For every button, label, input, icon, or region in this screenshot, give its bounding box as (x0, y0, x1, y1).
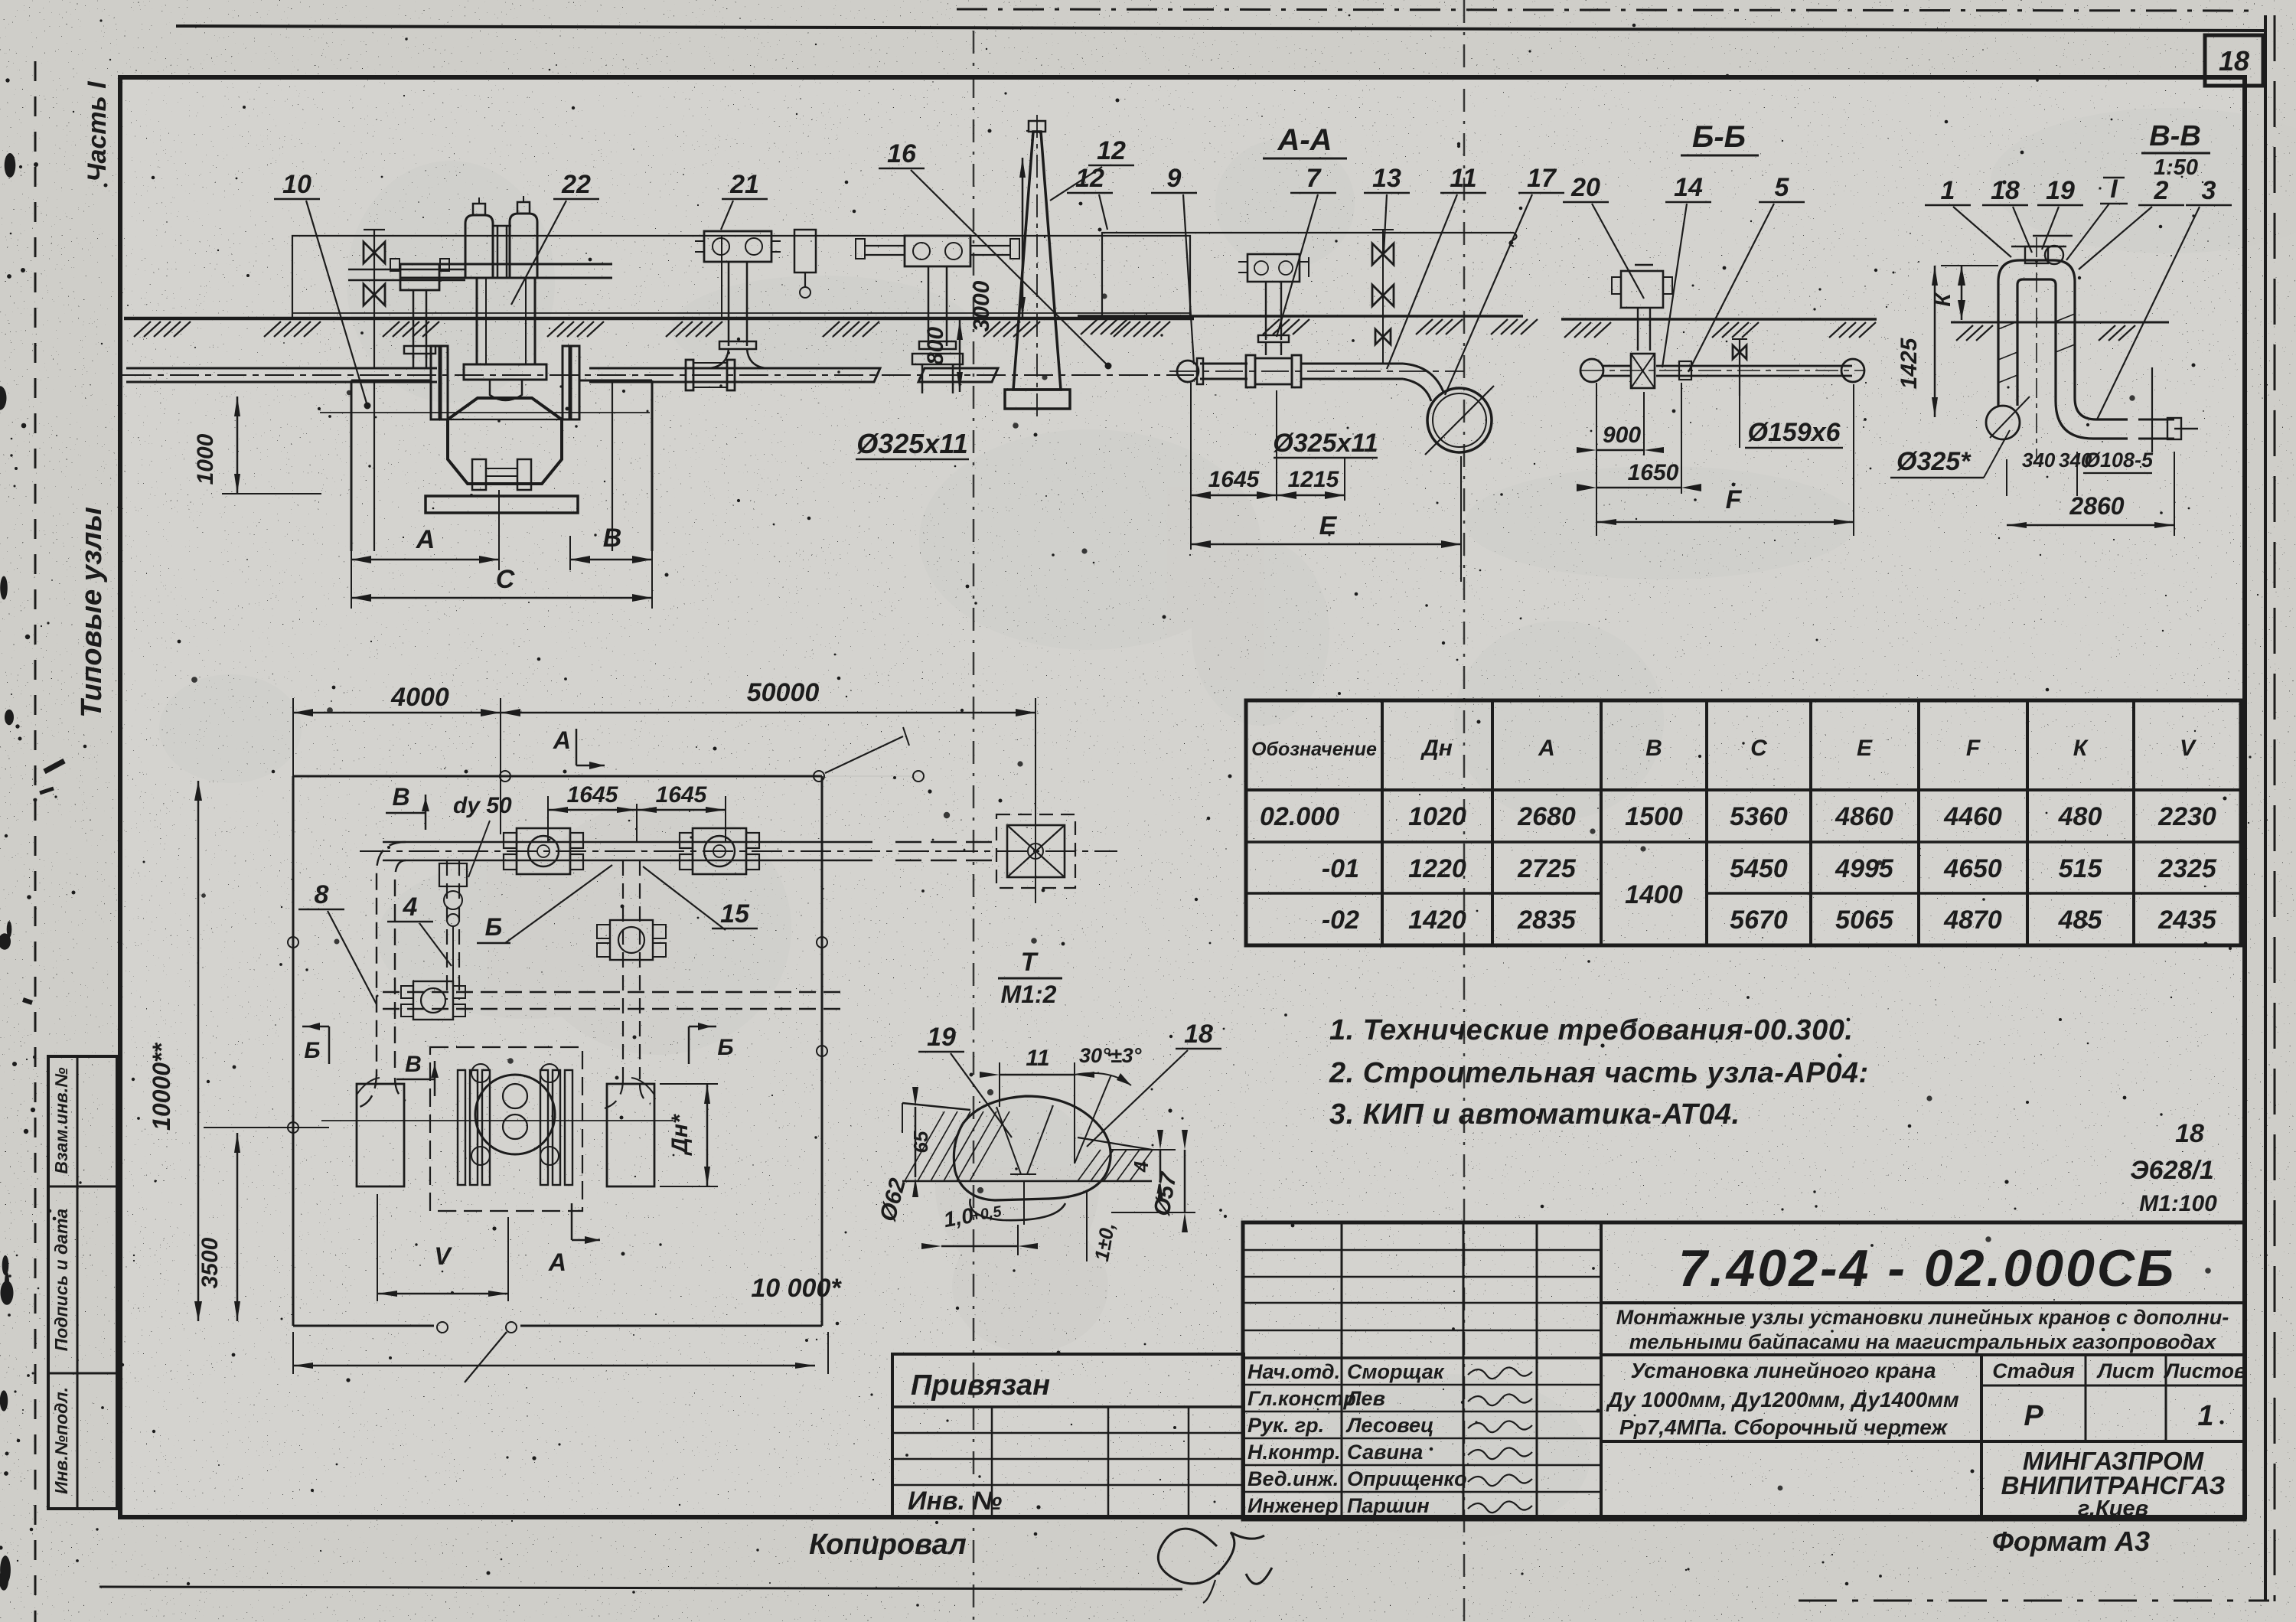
svg-text:2230: 2230 (2157, 802, 2216, 831)
dim A main (351, 551, 352, 609)
plan pipeline (360, 850, 1117, 852)
dim 3000 vertical (1022, 158, 1024, 317)
left instrument column 22 (400, 264, 439, 290)
svg-text:1645: 1645 (656, 782, 708, 808)
svg-text:5: 5 (1775, 173, 1790, 202)
svg-text:22: 22 (561, 170, 591, 199)
plan bypass valve 4 (413, 981, 453, 1020)
svg-text:-01: -01 (1322, 854, 1359, 883)
right outer border lines (2264, 15, 2267, 1601)
plan dim Dn (660, 1083, 718, 1085)
main view enclosure box (292, 236, 1190, 318)
svg-text:3. КИП и автоматика-АТ04.: 3. КИП и автоматика-АТ04. (1329, 1098, 1740, 1131)
plan valve fitting 1 (517, 828, 570, 874)
riser valve 21b (905, 236, 970, 266)
svg-text:4860: 4860 (1835, 802, 1893, 831)
svg-text:Установка линейного крана: Установка линейного крана (1630, 1359, 1936, 1382)
svg-text:12: 12 (1097, 136, 1126, 165)
plan fence gate top (819, 775, 918, 777)
svg-text:1220: 1220 (1408, 854, 1466, 883)
data table grid (1246, 700, 2241, 945)
B-B ground hatching (1564, 322, 1581, 338)
svg-text:1215: 1215 (1288, 467, 1340, 492)
svg-text:Е: Е (1319, 511, 1338, 540)
plan main valve flange plates (458, 1070, 465, 1185)
svg-text:Часть I: Часть I (83, 80, 112, 182)
vent valve stack left (373, 230, 375, 368)
plan vent valve dy50 (439, 863, 467, 886)
A-A dim E (1460, 456, 1462, 582)
svg-text:1: 1 (2197, 1400, 2213, 1432)
dim 1000 vertical (236, 397, 239, 494)
svg-text:1425: 1425 (1896, 337, 1922, 389)
svg-text:02.000: 02.000 (1260, 802, 1339, 831)
weld dim 11 (1000, 1074, 1075, 1076)
plan main valve dashed box (430, 1047, 582, 1211)
svg-text:5360: 5360 (1730, 802, 1788, 831)
svg-text:19: 19 (2046, 176, 2075, 205)
weld left hatch zone (905, 1111, 944, 1181)
svg-text:340: 340 (2022, 449, 2056, 472)
A-A dim 1645 (1190, 383, 1192, 550)
svg-text:11: 11 (1026, 1046, 1049, 1071)
buried pipeline left segment (126, 367, 437, 370)
plan dim 10000 left (197, 781, 200, 1321)
svg-text:5450: 5450 (1730, 854, 1788, 883)
svg-text:17: 17 (1527, 164, 1557, 193)
V-V top fitting (2025, 246, 2048, 263)
pipe segment 2 (918, 368, 998, 382)
svg-text:4870: 4870 (1943, 906, 2002, 935)
dim 800 vertical (959, 320, 961, 392)
svg-text:8: 8 (315, 880, 329, 909)
svg-text:7.402-4 - 02.000СБ: 7.402-4 - 02.000СБ (1678, 1239, 2176, 1297)
svg-text:2325: 2325 (2157, 854, 2217, 883)
svg-text:18: 18 (2219, 45, 2249, 77)
plan bypass left loop (360, 842, 406, 1107)
svg-text:Б: Б (304, 1038, 320, 1063)
B-B small fitting 14 (1679, 361, 1691, 380)
plan main valve circles (475, 1075, 555, 1154)
svg-text:В-В: В-В (2149, 120, 2201, 152)
svg-text:Ду 1000мм, Ду1200мм, Ду1400мм: Ду 1000мм, Ду1200мм, Ду1400мм (1606, 1388, 1959, 1411)
svg-text:Типовые узлы: Типовые узлы (76, 507, 108, 718)
svg-text:Б: Б (717, 1035, 733, 1060)
svg-text:Ø108-5: Ø108-5 (2084, 449, 2154, 472)
plan pipeline end fitting (1007, 825, 1065, 877)
actuator platform (400, 263, 612, 266)
plan fence right (821, 776, 823, 1326)
svg-text:2725: 2725 (1517, 854, 1577, 883)
svg-text:Рук. гр.: Рук. гр. (1247, 1414, 1324, 1437)
doc subject box (1601, 1440, 2245, 1443)
plan fence posts top (500, 771, 510, 782)
A-A enclosure box (1102, 233, 1514, 316)
svg-text:V: V (2180, 736, 2197, 761)
weld root lobe (970, 1199, 1065, 1220)
svg-text:14: 14 (1674, 173, 1703, 202)
svg-text:9: 9 (1167, 164, 1182, 193)
pipe coupling flanges (686, 360, 693, 390)
title block signatures (1468, 1367, 1532, 1513)
svg-text:800: 800 (923, 327, 948, 365)
svg-text:ВНИПИТРАНСГАЗ: ВНИПИТРАНСГАЗ (2001, 1471, 2226, 1500)
svg-text:Привязан: Привязан (911, 1369, 1050, 1402)
svg-text:Монтажные узлы установки линей: Монтажные узлы установки линейных кранов… (1616, 1306, 2229, 1329)
svg-text:Лист: Лист (2096, 1359, 2154, 1382)
fold line 1 (973, 31, 975, 1622)
V-V right leg hatch (2056, 314, 2075, 321)
svg-text:3: 3 (2202, 176, 2216, 205)
svg-text:4650: 4650 (1943, 854, 2002, 883)
valve base plate (426, 496, 578, 513)
svg-text:2435: 2435 (2157, 906, 2217, 935)
svg-text:4460: 4460 (1943, 802, 2002, 831)
svg-text:4: 4 (403, 893, 418, 922)
A-A pipe end cap (1177, 361, 1199, 382)
svg-text:Лев: Лев (1345, 1387, 1385, 1410)
svg-text:I: I (2110, 175, 2118, 204)
svg-text:4995: 4995 (1835, 854, 1894, 883)
V-V centerline (2036, 237, 2037, 459)
V-V bottom pipe segment (2138, 419, 2174, 421)
svg-text:18: 18 (1184, 1020, 1213, 1049)
svg-text:2680: 2680 (1517, 802, 1576, 831)
svg-text:Б: Б (485, 913, 503, 941)
svg-text:1000: 1000 (193, 433, 218, 485)
V-V bottom circle (1986, 406, 2020, 439)
svg-text:1020: 1020 (1408, 802, 1466, 831)
svg-text:М1:100: М1:100 (2139, 1191, 2217, 1216)
A-A bypass circle (1427, 388, 1492, 452)
foundation block right (651, 380, 654, 551)
valve body side flanges left (431, 346, 439, 419)
svg-text:Формат А3: Формат А3 (1992, 1526, 2150, 1557)
svg-text:Т: Т (1021, 948, 1039, 977)
svg-text:1650: 1650 (1628, 460, 1679, 485)
valve axis line (320, 412, 650, 413)
V-V dim 2860 (2174, 452, 2175, 536)
B-B dim F (1853, 384, 1854, 536)
svg-text:Сморщак: Сморщак (1347, 1360, 1445, 1383)
svg-text:18: 18 (1991, 176, 2020, 205)
svg-text:Дн*: Дн* (667, 1114, 693, 1157)
dim C main (351, 597, 652, 599)
doc number box (1601, 1301, 2245, 1304)
B-B pipe end circles (1580, 359, 1603, 382)
svg-text:11: 11 (1450, 164, 1476, 193)
plan fence bottom (293, 1325, 434, 1327)
svg-text:Оприщенко: Оприщенко (1347, 1467, 1467, 1490)
svg-text:480: 480 (2058, 802, 2102, 831)
B-B ground line (1561, 318, 1877, 321)
svg-text:1645: 1645 (1208, 467, 1261, 492)
svg-text:К: К (1931, 292, 1955, 307)
weld dim diameter 57 (1184, 1150, 1186, 1212)
weld right hatch zone (1078, 1150, 1101, 1181)
B-B dim 1650 (1681, 383, 1682, 494)
doc description box (1601, 1353, 2245, 1356)
svg-text:1400: 1400 (1625, 880, 1683, 909)
vent stack cone 12 (1013, 132, 1061, 390)
svg-text:тельными байпасами на магистра: тельными байпасами на магистральных газо… (1629, 1330, 2216, 1353)
svg-text:А: А (1538, 736, 1555, 761)
bonnet flange (464, 364, 546, 380)
svg-text:3500: 3500 (197, 1237, 223, 1288)
valve bottom bolts (472, 459, 486, 490)
svg-text:10: 10 (282, 170, 311, 199)
svg-text:Дн: Дн (1420, 736, 1453, 761)
B-B valve on pipe (1631, 354, 1655, 388)
svg-text:10000**: 10000** (148, 1043, 175, 1131)
plan dim 1645 right (725, 796, 726, 842)
svg-text:21: 21 (729, 170, 759, 199)
svg-text:М1:2: М1:2 (1001, 981, 1057, 1008)
A-A dim 1215 (1344, 490, 1345, 501)
svg-text:С: С (496, 565, 515, 594)
stage sheet columns (1980, 1355, 1983, 1519)
svg-text:2860: 2860 (2069, 492, 2124, 520)
weld dim 65 (902, 1103, 903, 1133)
svg-text:dy 50: dy 50 (453, 793, 512, 818)
title block outline (1243, 1222, 2245, 1519)
svg-text:20: 20 (1570, 173, 1600, 202)
svg-text:12: 12 (1075, 164, 1104, 193)
svg-text:Вед.инж.: Вед.инж. (1247, 1467, 1339, 1490)
valve body side flanges right (563, 346, 569, 419)
svg-text:Копировал: Копировал (809, 1529, 967, 1561)
svg-text:Е: Е (1857, 736, 1873, 761)
privyazan box (892, 1354, 1244, 1518)
svg-text:4: 4 (1130, 1160, 1153, 1173)
svg-text:2. Строительная часть узла-А: 2. Строительная часть узла-АР04: (1329, 1057, 1869, 1089)
svg-text:16: 16 (887, 139, 917, 168)
V-V U pipe (1998, 260, 2128, 419)
svg-text:3000: 3000 (969, 280, 994, 331)
svg-text:Листов: Листов (2164, 1359, 2247, 1382)
svg-text:1420: 1420 (1408, 906, 1466, 935)
svg-text:А-А: А-А (1277, 123, 1332, 157)
plan dim 1645 left (547, 796, 549, 842)
V-V dims 340 340 (2006, 459, 2007, 496)
riser valve 21a (704, 231, 771, 262)
plan section marker A bottom (571, 1203, 573, 1240)
center column (497, 226, 499, 278)
plan bypass horizontal (383, 992, 842, 1009)
svg-text:10 000*: 10 000* (751, 1274, 842, 1303)
svg-text:4000: 4000 (390, 683, 449, 712)
A-A vertical valve stack 13 (1382, 230, 1384, 364)
svg-text:19: 19 (927, 1023, 956, 1052)
plan fence top (293, 775, 822, 778)
svg-text:Лесовец: Лесовец (1345, 1414, 1434, 1437)
svg-text:1: 1 (1941, 176, 1955, 205)
outer top border line (176, 26, 2264, 31)
hydraulic cylinder left (465, 215, 493, 278)
svg-text:А: А (416, 525, 435, 554)
svg-text:2835: 2835 (1517, 906, 1577, 935)
svg-text:30°±3°: 30°±3° (1079, 1044, 1142, 1067)
weld bead outline (954, 1096, 1110, 1200)
pipeline centerline main view (122, 374, 1194, 376)
svg-text:5670: 5670 (1730, 906, 1788, 935)
svg-text:50000: 50000 (747, 678, 820, 707)
weld detail pipe walls (902, 1103, 970, 1110)
svg-text:V: V (434, 1242, 452, 1270)
A-A ground line (1078, 315, 1523, 318)
plan valve fitting 2 (693, 828, 746, 874)
svg-text:Ø159x6: Ø159x6 (1748, 418, 1841, 447)
pipeline right of valve (589, 367, 814, 370)
svg-text:1500: 1500 (1625, 802, 1683, 831)
svg-text:7: 7 (1306, 164, 1322, 193)
svg-text:Ø325x11: Ø325x11 (856, 428, 967, 459)
riser gland at pipe (912, 354, 963, 364)
left margin dashed line (34, 61, 37, 1622)
svg-text:Савина: Савина (1347, 1441, 1423, 1464)
plan anchor block left (357, 1084, 404, 1186)
svg-text:Р: Р (2024, 1400, 2043, 1432)
svg-text:515: 515 (2059, 854, 2103, 883)
svg-text:-02: -02 (1322, 906, 1359, 935)
hydraulic cylinder right (510, 214, 537, 278)
svg-text:Н.контр.: Н.контр. (1247, 1441, 1341, 1464)
B-B offtake fitting 5 (1739, 339, 1740, 396)
A-A riser valve (1247, 254, 1300, 282)
V-V pipe hatch ticks (1998, 321, 2017, 329)
svg-text:Взам.инв.№: Взам.инв.№ (51, 1067, 71, 1173)
svg-text:900: 900 (1603, 423, 1641, 448)
plan valve axis (321, 1120, 673, 1121)
svg-text:В: В (1645, 736, 1662, 761)
weld right wall edge (1078, 1137, 1152, 1150)
svg-text:Э628/1: Э628/1 (2130, 1156, 2214, 1185)
svg-text:Б-Б: Б-Б (1692, 120, 1746, 154)
gauge column (794, 230, 816, 273)
dim B main (651, 551, 653, 609)
svg-text:65: 65 (909, 1131, 932, 1153)
svg-text:F: F (1726, 485, 1743, 514)
plan section marker B right (688, 1026, 690, 1064)
main valve body (448, 398, 562, 484)
svg-text:Инженер: Инженер (1247, 1494, 1338, 1517)
plan valve 15 (610, 920, 653, 960)
svg-text:1. Технические требования-00.: 1. Технические требования-00.300. (1329, 1014, 1853, 1046)
svg-text:В: В (392, 783, 409, 811)
plan bypass vertical right (605, 860, 651, 1108)
svg-text:Инв.№подл.: Инв.№подл. (51, 1387, 71, 1494)
A-A pipe (1200, 363, 1247, 365)
svg-text:2: 2 (2154, 176, 2169, 205)
svg-text:Гл.констр.: Гл.констр. (1247, 1387, 1362, 1410)
plan fence left (292, 776, 295, 1326)
svg-text:1645: 1645 (567, 782, 619, 808)
svg-text:В: В (603, 524, 622, 553)
svg-text:Ø325*: Ø325* (1896, 447, 1971, 476)
pipe segment with slant cut (814, 368, 880, 382)
V-V ground line (1951, 321, 2169, 324)
valve neck (490, 380, 522, 400)
signature squiggle bottom (1158, 1529, 1272, 1584)
foundation block left (351, 380, 353, 551)
svg-text:А: А (553, 726, 571, 754)
svg-text:С: С (1750, 736, 1768, 761)
svg-text:Подпись и дата: Подпись и дата (51, 1209, 71, 1352)
plan dim V bottom (377, 1194, 378, 1301)
plan dim 3500 (236, 1133, 239, 1321)
svg-text:В: В (405, 1052, 422, 1077)
ground hatching main view (134, 321, 151, 337)
fold line 2 (1463, 0, 1466, 1622)
plan section marker B left (328, 1026, 331, 1064)
svg-text:Паршин: Паршин (1347, 1494, 1430, 1517)
V-V ground hatching (1956, 325, 1973, 341)
B-B riser (1637, 308, 1639, 351)
svg-text:г.Киев: г.Киев (2078, 1496, 2148, 1521)
svg-text:Инв. №: Инв. № (908, 1487, 1002, 1516)
manifold arm (348, 269, 465, 271)
svg-text:Обозначение: Обозначение (1251, 739, 1377, 760)
sheet number box 18 (2205, 35, 2263, 86)
svg-text:К: К (2073, 736, 2089, 761)
V-V end fitting cross (2151, 367, 2153, 452)
valve bonnet (476, 278, 478, 364)
V-V dim 1425 (1941, 265, 1998, 266)
V-V dim K (1961, 266, 1963, 320)
plan section marker A top (576, 729, 578, 765)
svg-text:Нач.отд.: Нач.отд. (1247, 1360, 1340, 1383)
weld dim 4 (1111, 1149, 1176, 1150)
A-A pipe bend to bypass (1403, 364, 1443, 392)
title block small grid left (1243, 1249, 1601, 1252)
A-A ground hatching (1081, 319, 1097, 335)
bottom scan line (1799, 1600, 2269, 1602)
svg-text:5065: 5065 (1835, 906, 1894, 935)
svg-text:Стадия: Стадия (1992, 1359, 2075, 1382)
plan bypass vertical 1 (447, 860, 459, 1000)
svg-text:Ø325x11: Ø325x11 (1273, 429, 1378, 458)
svg-text:485: 485 (2058, 906, 2103, 935)
svg-text:18: 18 (2175, 1119, 2204, 1148)
weld V groove lines (996, 1107, 1021, 1174)
svg-text:А: А (548, 1248, 566, 1276)
B-B pipe (1603, 365, 1630, 367)
svg-text:Рр7,4МПа. Сборочный чертеж: Рр7,4МПа. Сборочный чертеж (1619, 1415, 1949, 1439)
ground line main view (124, 317, 1194, 321)
svg-text:F: F (1966, 736, 1981, 761)
svg-text:13: 13 (1372, 164, 1401, 193)
plan anchor block right (607, 1084, 654, 1186)
left stamp column boxes (48, 1056, 117, 1509)
B-B dim 900 (1596, 383, 1597, 536)
svg-text:15: 15 (720, 899, 750, 928)
A-A ball valve (1246, 355, 1255, 387)
